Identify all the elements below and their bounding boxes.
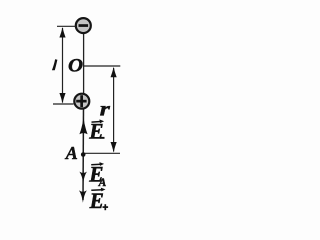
svg-text:E: E — [89, 188, 104, 214]
label l — [52, 59, 58, 70]
node A dot — [81, 152, 86, 157]
label E+ with vector arrow — [89, 188, 108, 214]
wire: horizontal line at A level to the right — [84, 152, 120, 154]
arrow E- (up arrowhead on line above A) — [79, 117, 87, 134]
arrow EA (down arrowhead below A) — [79, 172, 87, 183]
arrow E+ (down arrowhead at bottom) — [79, 190, 87, 202]
label EA with vector arrow — [88, 161, 106, 189]
dimension l: vertical double-arrow line — [59, 27, 65, 104]
wire: horizontal line from O to the right — [84, 65, 121, 67]
dimension r: vertical double-arrow line — [111, 67, 117, 153]
positive charge (bottom ball with plus) — [74, 94, 89, 109]
dimension l: extension tick at top — [57, 25, 76, 27]
label O — [68, 55, 83, 76]
dimension l: extension tick at bottom — [53, 103, 74, 105]
svg-text:O: O — [68, 55, 83, 76]
label r — [100, 98, 111, 120]
wire: vertical field line below positive charge through A — [82, 108, 85, 200]
label E- with vector arrow — [88, 118, 104, 144]
svg-text:E: E — [88, 118, 103, 144]
svg-text:A: A — [65, 143, 78, 163]
negative charge (top ball with minus) — [76, 18, 91, 33]
wire: rod between the two charges — [83, 30, 85, 97]
